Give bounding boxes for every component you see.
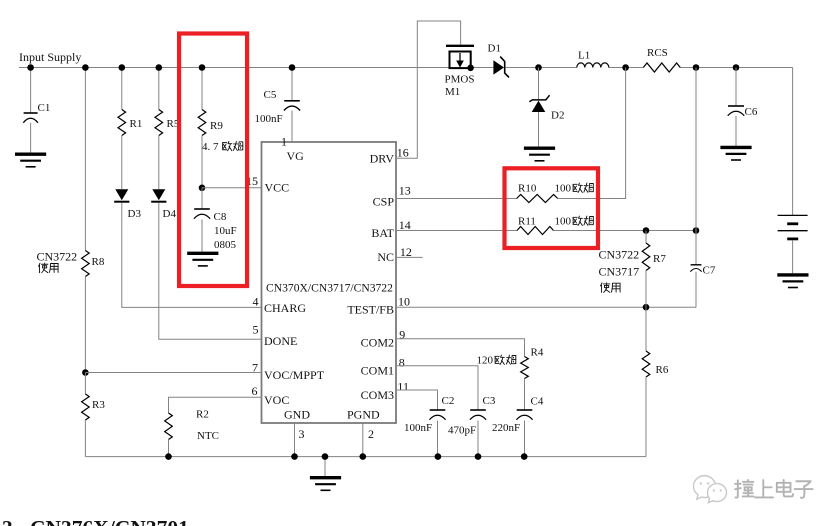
svg-text:14: 14 — [399, 218, 411, 232]
junction PMOS drain — [467, 65, 474, 72]
svg-text:3: 3 — [2, 516, 13, 526]
ground (battery) — [777, 273, 808, 276]
resistor R2 NTC — [165, 413, 173, 440]
svg-text:R10: R10 — [518, 183, 537, 195]
svg-text:C4: C4 — [531, 396, 544, 408]
svg-text:CN3722: CN3722 — [599, 248, 640, 262]
svg-text:CN3722: CN3722 — [37, 250, 78, 264]
resistor RCS — [643, 63, 680, 72]
svg-text:0805: 0805 — [214, 239, 237, 251]
capacitor C6 — [735, 68, 737, 107]
svg-text:D4: D4 — [163, 208, 177, 220]
inductor L1 — [577, 63, 609, 68]
svg-text:1: 1 — [281, 134, 287, 148]
svg-text:5: 5 — [253, 323, 259, 337]
junction rail right of RCS — [693, 64, 700, 71]
resistor R5 — [155, 110, 163, 136]
wire: VOC pin 6 to NTC — [169, 397, 262, 413]
svg-text:6: 6 — [252, 384, 258, 398]
svg-text:R9: R9 — [210, 120, 223, 132]
junction rail at C6 — [733, 64, 740, 71]
svg-text:DRV: DRV — [370, 152, 395, 166]
wire: R11 to battery sense node — [554, 230, 697, 232]
resistor R9 4.7 ohm — [198, 110, 206, 136]
svg-text:100nF: 100nF — [255, 113, 283, 125]
wire: NC pin 12 stub — [396, 256, 423, 258]
diode D1 (schottky) — [493, 60, 504, 74]
resistor R1 — [118, 110, 126, 136]
wire: COM3 pin 11 to C2 — [396, 390, 438, 410]
svg-text:VCC: VCC — [265, 181, 290, 195]
junction on rail at R1 — [119, 64, 126, 71]
svg-text:VOC: VOC — [264, 393, 289, 407]
svg-text:C5: C5 — [264, 89, 277, 101]
watermark logo icon (chat bubbles) — [694, 476, 727, 503]
resistor R7 — [645, 231, 647, 244]
svg-text:100: 100 — [555, 183, 572, 195]
junction on rail at R8 column — [82, 64, 89, 71]
svg-text:PGND: PGND — [347, 408, 380, 422]
svg-text:TEST/FB: TEST/FB — [347, 303, 394, 317]
svg-text:D1: D1 — [488, 43, 501, 55]
junction R7 top — [643, 227, 650, 234]
svg-text:BAT: BAT — [371, 226, 394, 240]
junction rail at D2 — [535, 64, 542, 71]
svg-text:COM1: COM1 — [361, 364, 394, 378]
svg-text:R4: R4 — [531, 347, 544, 359]
svg-text:C1: C1 — [38, 102, 51, 114]
capacitor C7 — [695, 68, 697, 231]
wire: TEST/FB pin 10 to C7 — [396, 306, 696, 308]
svg-text:NC: NC — [377, 250, 394, 264]
watermark logo text — [735, 480, 754, 498]
svg-text:C6: C6 — [745, 106, 758, 118]
svg-text:13: 13 — [399, 184, 411, 198]
svg-text:CN370X/CN3717/CN3722: CN370X/CN3717/CN3722 — [266, 282, 393, 295]
svg-text:NTC: NTC — [197, 430, 219, 442]
wire: R8 to VOC/MPPT node — [84, 277, 86, 373]
svg-text:100: 100 — [555, 216, 572, 228]
svg-text:11: 11 — [397, 379, 409, 393]
svg-text:R1: R1 — [130, 118, 143, 130]
svg-text:R6: R6 — [656, 364, 669, 376]
svg-text:R11: R11 — [518, 216, 536, 228]
junction rail L1/RCS (CSP sense) — [622, 64, 629, 71]
junction on rail at R5 — [156, 64, 163, 71]
resistor R3 — [84, 373, 86, 395]
svg-text:COM2: COM2 — [361, 335, 394, 349]
junction R7/R6 on TEST/FB net — [643, 304, 650, 311]
svg-text:220nF: 220nF — [492, 422, 520, 434]
capacitor C5 100nF — [291, 68, 293, 101]
svg-text:3: 3 — [299, 427, 305, 441]
wire: VOC/MPPT pin 7 to left node — [85, 372, 261, 374]
wire: VCC node to pin 15 — [202, 187, 262, 189]
capacitor C1 — [30, 68, 32, 114]
wire: R1/D3 column — [121, 68, 123, 110]
ground (C1) — [15, 152, 46, 155]
wire: R9 column — [201, 68, 203, 110]
svg-text:R3: R3 — [92, 399, 105, 411]
diode D4 — [152, 189, 165, 200]
junction C7 column / BAT node — [693, 227, 700, 234]
svg-text:DONE: DONE — [264, 334, 297, 348]
svg-text:4: 4 — [253, 295, 259, 309]
junction on rail at C5 — [289, 64, 296, 71]
svg-text:CN3717: CN3717 — [599, 265, 640, 279]
svg-text:CHARG: CHARG — [264, 301, 306, 315]
svg-text:2: 2 — [368, 427, 374, 441]
svg-text:120: 120 — [477, 355, 494, 367]
svg-text:100nF: 100nF — [404, 422, 432, 434]
wire: DRV pin 16 to PMOS gate — [396, 21, 461, 158]
svg-text:CSP: CSP — [373, 195, 395, 209]
svg-text:VG: VG — [287, 149, 305, 163]
ground (D2) — [524, 146, 555, 149]
resistor R4 120 ohm — [521, 357, 529, 379]
svg-text:C7: C7 — [703, 265, 716, 277]
svg-text:10: 10 — [398, 295, 410, 309]
op-amp U1 : IC CN370X/CN3717/CN3722 body — [262, 142, 397, 423]
svg-text:10uF: 10uF — [214, 225, 237, 237]
ground (C8) — [187, 252, 218, 255]
svg-text:R2: R2 — [196, 409, 209, 421]
svg-text:470pF: 470pF — [448, 425, 476, 437]
capacitor C3 470pF — [470, 409, 486, 411]
wire: COM1 pin 8 to C3 — [396, 366, 478, 410]
svg-text:4. 7: 4. 7 — [202, 141, 219, 153]
svg-text:R8: R8 — [92, 256, 105, 268]
svg-text:COM3: COM3 — [361, 388, 394, 402]
svg-text:Input Supply: Input Supply — [19, 50, 81, 64]
svg-text:D3: D3 — [128, 208, 142, 220]
zener diode D2 — [538, 68, 540, 100]
svg-text:C8: C8 — [214, 211, 227, 223]
wire: D3 to CHARG pin 4 — [122, 203, 262, 308]
annotation box 1 (red, R9/C8) — [179, 34, 247, 287]
resistor R10 100 ohm — [517, 195, 558, 203]
ground (C6) — [720, 146, 751, 149]
wire: BAT pin 14 lead — [396, 230, 517, 232]
wire: COM2 pin 9 to R4 — [396, 339, 525, 357]
svg-text:C3: C3 — [483, 395, 496, 407]
junction VOC/MPPT node — [82, 369, 89, 376]
wire: R8 column from rail — [84, 68, 86, 251]
svg-text:VOC/MPPT: VOC/MPPT — [264, 368, 325, 382]
svg-text:L1: L1 — [578, 50, 590, 62]
resistor R11 100 ohm — [517, 227, 554, 235]
wire: GND pin 3 stub — [294, 423, 296, 457]
resistor R8 — [82, 251, 90, 277]
svg-text:CN376X/CN3701: CN376X/CN3701 — [30, 516, 189, 526]
svg-text:M1: M1 — [445, 86, 460, 98]
wire: R5/D4 column — [158, 68, 160, 110]
svg-text:D2: D2 — [551, 110, 564, 122]
svg-text:16: 16 — [397, 146, 409, 160]
svg-text:R7: R7 — [653, 253, 666, 265]
capacitor C2 100nF — [430, 409, 446, 411]
wire: CSP pin 13 lead — [396, 198, 517, 200]
svg-text:PMOS: PMOS — [445, 74, 475, 86]
wire: PGND pin 2 stub — [362, 423, 364, 457]
svg-text:8: 8 — [399, 355, 405, 369]
transistor M1 PMOS — [446, 45, 474, 47]
wire: bottom ground rail — [85, 456, 646, 458]
capacitor C8 10uF 0805 — [201, 188, 203, 209]
ground (main, below IC) — [324, 457, 326, 476]
svg-text:C2: C2 — [442, 395, 455, 407]
junction on rail at C1 — [27, 64, 34, 71]
wire: rail to battery — [792, 68, 794, 216]
annotation box 2 (red, R10/R11) — [505, 168, 599, 248]
wire: input supply rail — [19, 67, 449, 69]
resistor R6 — [645, 307, 647, 351]
capacitor C4 220nF — [517, 409, 533, 411]
svg-text:GND: GND — [284, 408, 310, 422]
wire: R10 to RCS left sense — [558, 68, 626, 199]
battery BT1 — [778, 214, 808, 216]
junction bottom rail at R2 — [165, 453, 172, 460]
junction on rail at R9 — [199, 64, 206, 71]
svg-text:RCS: RCS — [647, 47, 668, 59]
diode D3 — [115, 189, 128, 200]
wire: D4 to DONE pin 5 — [159, 203, 262, 340]
wire: C5 to VG pin 1 — [291, 111, 293, 143]
junction VCC node — [199, 185, 206, 192]
